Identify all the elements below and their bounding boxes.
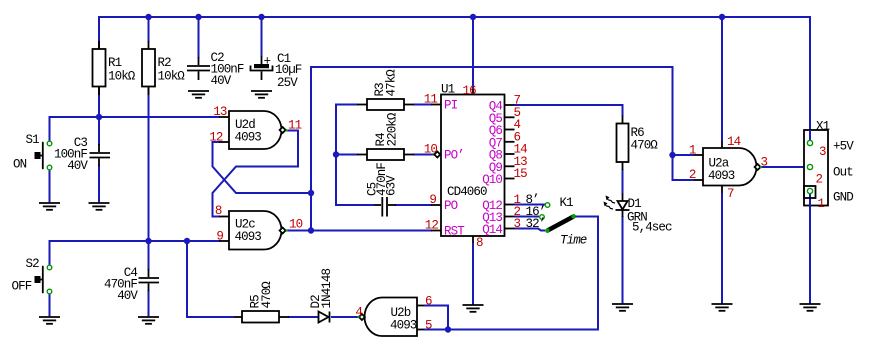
- wire U2c output to U1 RST: [287, 230, 433, 232]
- svg-text:2: 2: [689, 168, 696, 182]
- wire S1 to ground: [49, 170, 51, 203]
- svg-text:ON: ON: [13, 158, 27, 172]
- U1 pin 7 Q4: [489, 94, 521, 114]
- wire reset net horizontal S2 row: [50, 241, 221, 265]
- svg-text:8: 8: [215, 204, 222, 218]
- wire K1 common to U2b inputs: [424, 217, 598, 330]
- svg-text:R2: R2: [158, 56, 172, 70]
- svg-text:9: 9: [429, 193, 436, 207]
- wire R2 top lead: [148, 17, 150, 42]
- svg-text:16: 16: [463, 84, 477, 98]
- rotary switch K1: [540, 196, 587, 248]
- svg-text:12: 12: [425, 219, 439, 233]
- wire X1 pin1 to ground: [809, 194, 811, 305]
- wire D2 to R5: [288, 316, 318, 318]
- svg-text:40V: 40V: [211, 74, 232, 88]
- U1 pin 13 Q9: [489, 155, 527, 175]
- svg-text:X1: X1: [816, 120, 830, 134]
- ground C4: [138, 317, 159, 324]
- U1 pin 11 PI: [424, 93, 458, 113]
- nand gate U2a: [689, 135, 768, 201]
- svg-text:D1: D1: [628, 197, 642, 211]
- node U2d output green endpoint: [286, 129, 288, 131]
- svg-text:RST: RST: [444, 225, 465, 239]
- LED D1 GRN: [604, 194, 673, 235]
- U1 pin 15 Q10: [482, 167, 527, 187]
- svg-text:7: 7: [727, 187, 734, 201]
- ground C2: [188, 91, 209, 98]
- junction dot pin16/rail: [470, 14, 476, 20]
- svg-text:10kΩ: 10kΩ: [158, 70, 186, 84]
- wire U2d output to cross-coupling: [213, 131, 299, 217]
- junction dot R1/C3/S1: [96, 114, 102, 120]
- junction dot pin14/rail: [719, 14, 725, 20]
- capacitor C4 470nF: [104, 266, 159, 303]
- svg-text:4093: 4093: [235, 131, 262, 145]
- svg-text:11: 11: [288, 119, 302, 133]
- wire D1 to ground: [622, 216, 624, 304]
- svg-text:3: 3: [819, 145, 826, 159]
- wire +5V top rail: [99, 17, 810, 143]
- wire C4 top lead: [148, 241, 150, 270]
- svg-text:15: 15: [514, 167, 528, 181]
- wire R1 bottom to C3: [98, 88, 100, 145]
- svg-text:47kΩ: 47kΩ: [385, 69, 399, 97]
- svg-text:S1: S1: [26, 133, 40, 147]
- svg-text:3: 3: [514, 217, 521, 231]
- junction dot reset net branch: [184, 238, 190, 244]
- wire U2a output to X1 pin2: [761, 166, 807, 168]
- svg-text:32’: 32’: [526, 217, 546, 231]
- node U2a output green endpoint: [760, 166, 762, 168]
- junction dot R2/rail: [145, 14, 151, 20]
- svg-text:OFF: OFF: [12, 280, 32, 294]
- svg-text:2: 2: [816, 173, 823, 187]
- U1 pin 1 Q12: [482, 193, 539, 213]
- wire C4 to ground: [148, 290, 150, 317]
- svg-text:R1: R1: [108, 56, 122, 70]
- svg-text:11: 11: [424, 93, 438, 107]
- U1 pin 2 Q13: [482, 205, 545, 225]
- IC U1 CD4060: [441, 83, 505, 237]
- svg-text:14: 14: [727, 135, 741, 149]
- wire U2b output to D2: [331, 316, 361, 318]
- U1 pin 16 VDD: [463, 84, 477, 98]
- svg-text:10µF: 10µF: [275, 63, 302, 77]
- wire R4 right to U1 PO' bubble: [413, 154, 434, 156]
- capacitor C5 470nF: [366, 163, 399, 217]
- U1 pin 4 Q6: [489, 118, 521, 138]
- wire Q12 to K1 contact 8': [515, 204, 546, 206]
- svg-text:+5V: +5V: [833, 140, 854, 154]
- wire R4 left lead: [336, 154, 358, 156]
- ground U2a pin7: [712, 304, 733, 311]
- junction dot U2b pins 5-6: [445, 326, 451, 332]
- svg-text:470Ω: 470Ω: [260, 281, 274, 309]
- wire C5 right to U1 PO: [395, 204, 432, 206]
- wire Q4 pin7 to R6: [515, 105, 623, 116]
- junction dot R4/oscillator rail: [333, 151, 339, 157]
- svg-text:CD4060: CD4060: [447, 185, 487, 199]
- wire R3 right to U1 PI: [413, 104, 432, 106]
- wire U2a pin1 stub: [673, 154, 695, 156]
- svg-text:Time: Time: [560, 234, 587, 248]
- wire Q13 to K1 contact 16': [515, 216, 540, 218]
- U1 pin 5 Q5: [489, 106, 521, 126]
- svg-text:U1: U1: [441, 83, 455, 97]
- svg-text:1N4148: 1N4148: [320, 268, 334, 308]
- wire latch output rail to U2a inputs: [311, 67, 694, 231]
- ground S1: [39, 203, 60, 210]
- wire U2a pin7 to ground: [721, 193, 723, 304]
- resistor R2 10k: [142, 41, 185, 95]
- svg-text:4093: 4093: [390, 319, 417, 333]
- capacitor C2 100nF: [187, 51, 244, 88]
- capacitor C3 100nF: [54, 136, 110, 173]
- U1 pin 8 GND: [473, 236, 483, 250]
- resistor R5 470: [234, 281, 289, 323]
- wire U2b pin6 jumper: [424, 306, 448, 330]
- svg-text:K1: K1: [560, 196, 574, 210]
- wire R2 bottom to reset net: [148, 88, 150, 241]
- svg-text:Q14: Q14: [482, 223, 502, 237]
- junction dot U2a inputs: [669, 152, 675, 158]
- wire Q14 to K1 contact 32': [515, 229, 546, 231]
- svg-text:25V: 25V: [277, 76, 298, 90]
- svg-text:GND: GND: [833, 191, 853, 205]
- switch S1 push button: [13, 133, 52, 172]
- resistor R4 220k: [357, 112, 414, 160]
- ground D1: [612, 304, 633, 311]
- junction dot C1/rail: [258, 14, 264, 20]
- wire C1 top lead: [261, 17, 263, 57]
- U1 pin 12 RST: [425, 219, 465, 239]
- svg-text:Q10: Q10: [482, 173, 502, 187]
- svg-text:1: 1: [689, 144, 696, 158]
- svg-text:9: 9: [216, 230, 223, 244]
- wire U1 pin16 to rail: [472, 17, 474, 88]
- junction dot R2/C4: [145, 238, 151, 244]
- svg-text:10kΩ: 10kΩ: [108, 70, 136, 84]
- svg-text:5,4sec: 5,4sec: [632, 221, 672, 235]
- wire reset net down to R5 row: [187, 241, 234, 317]
- ground C1: [251, 91, 272, 98]
- wire S2 to ground: [49, 294, 51, 317]
- svg-text:10: 10: [424, 143, 438, 157]
- svg-text:PI: PI: [444, 99, 458, 113]
- ground U1 pin8: [463, 305, 484, 312]
- svg-text:220kΩ: 220kΩ: [386, 112, 400, 146]
- U1 pin 9 PO: [429, 193, 457, 213]
- diode D2 1N4148: [309, 268, 334, 322]
- svg-text:4093: 4093: [235, 230, 262, 244]
- U1 pin 10 PO': [424, 143, 464, 163]
- svg-text:1: 1: [818, 197, 825, 211]
- node U2c output green endpoint: [286, 229, 288, 231]
- svg-text:10: 10: [289, 218, 303, 232]
- nand gate U2c: [215, 204, 303, 250]
- resistor R6 470: [617, 116, 659, 171]
- U1 pin 3 Q14: [482, 217, 545, 237]
- svg-text:8: 8: [476, 236, 483, 250]
- wire U1 pin8 to ground: [472, 243, 474, 305]
- switch S2 push button: [12, 257, 52, 294]
- nand gate U2d: [209, 105, 301, 149]
- svg-text:13: 13: [213, 105, 227, 119]
- svg-text:PO: PO: [444, 199, 458, 213]
- junction dot latch feedback upper: [308, 190, 314, 196]
- resistor R3 47k: [357, 69, 414, 110]
- ground C3: [89, 203, 110, 210]
- svg-text:Out: Out: [833, 166, 853, 180]
- svg-text:470Ω: 470Ω: [631, 139, 659, 153]
- svg-text:S2: S2: [26, 257, 40, 271]
- capacitor C1 10uF electrolytic: [251, 52, 302, 90]
- wire U2d pin12 from cross-coupling: [213, 142, 312, 193]
- ground X1 pin1: [800, 304, 821, 311]
- node U2b output green endpoint: [357, 316, 359, 318]
- svg-text:12: 12: [209, 131, 223, 145]
- connector X1: [804, 120, 854, 212]
- U1 pin 14 Q8: [489, 143, 527, 163]
- svg-text:40V: 40V: [117, 289, 138, 303]
- svg-text:+: +: [264, 55, 271, 69]
- ground S2: [39, 317, 60, 324]
- node U1 PO' green endpoint: [433, 153, 435, 155]
- svg-text:PO’: PO’: [444, 149, 464, 163]
- wire R3 left to oscillator rail: [336, 105, 374, 206]
- svg-text:63V: 63V: [385, 175, 399, 196]
- resistor R1 10k: [93, 41, 136, 95]
- nand gate U2b mirrored: [355, 295, 432, 337]
- wire C2 top lead: [198, 17, 200, 58]
- wire R6 to D1: [622, 169, 624, 194]
- wire S1 net horizontal to U2d pin13: [50, 117, 221, 141]
- wire C3 to ground: [98, 165, 100, 203]
- junction dot C2/rail: [195, 14, 201, 20]
- svg-text:6: 6: [425, 295, 432, 309]
- svg-text:4093: 4093: [708, 169, 735, 183]
- svg-text:40V: 40V: [67, 159, 88, 173]
- U1 pin 6 Q7: [489, 130, 521, 150]
- junction dot latch output/RST: [308, 227, 314, 233]
- svg-text:5: 5: [425, 319, 432, 333]
- wire U2a pin14 to rail: [721, 17, 723, 141]
